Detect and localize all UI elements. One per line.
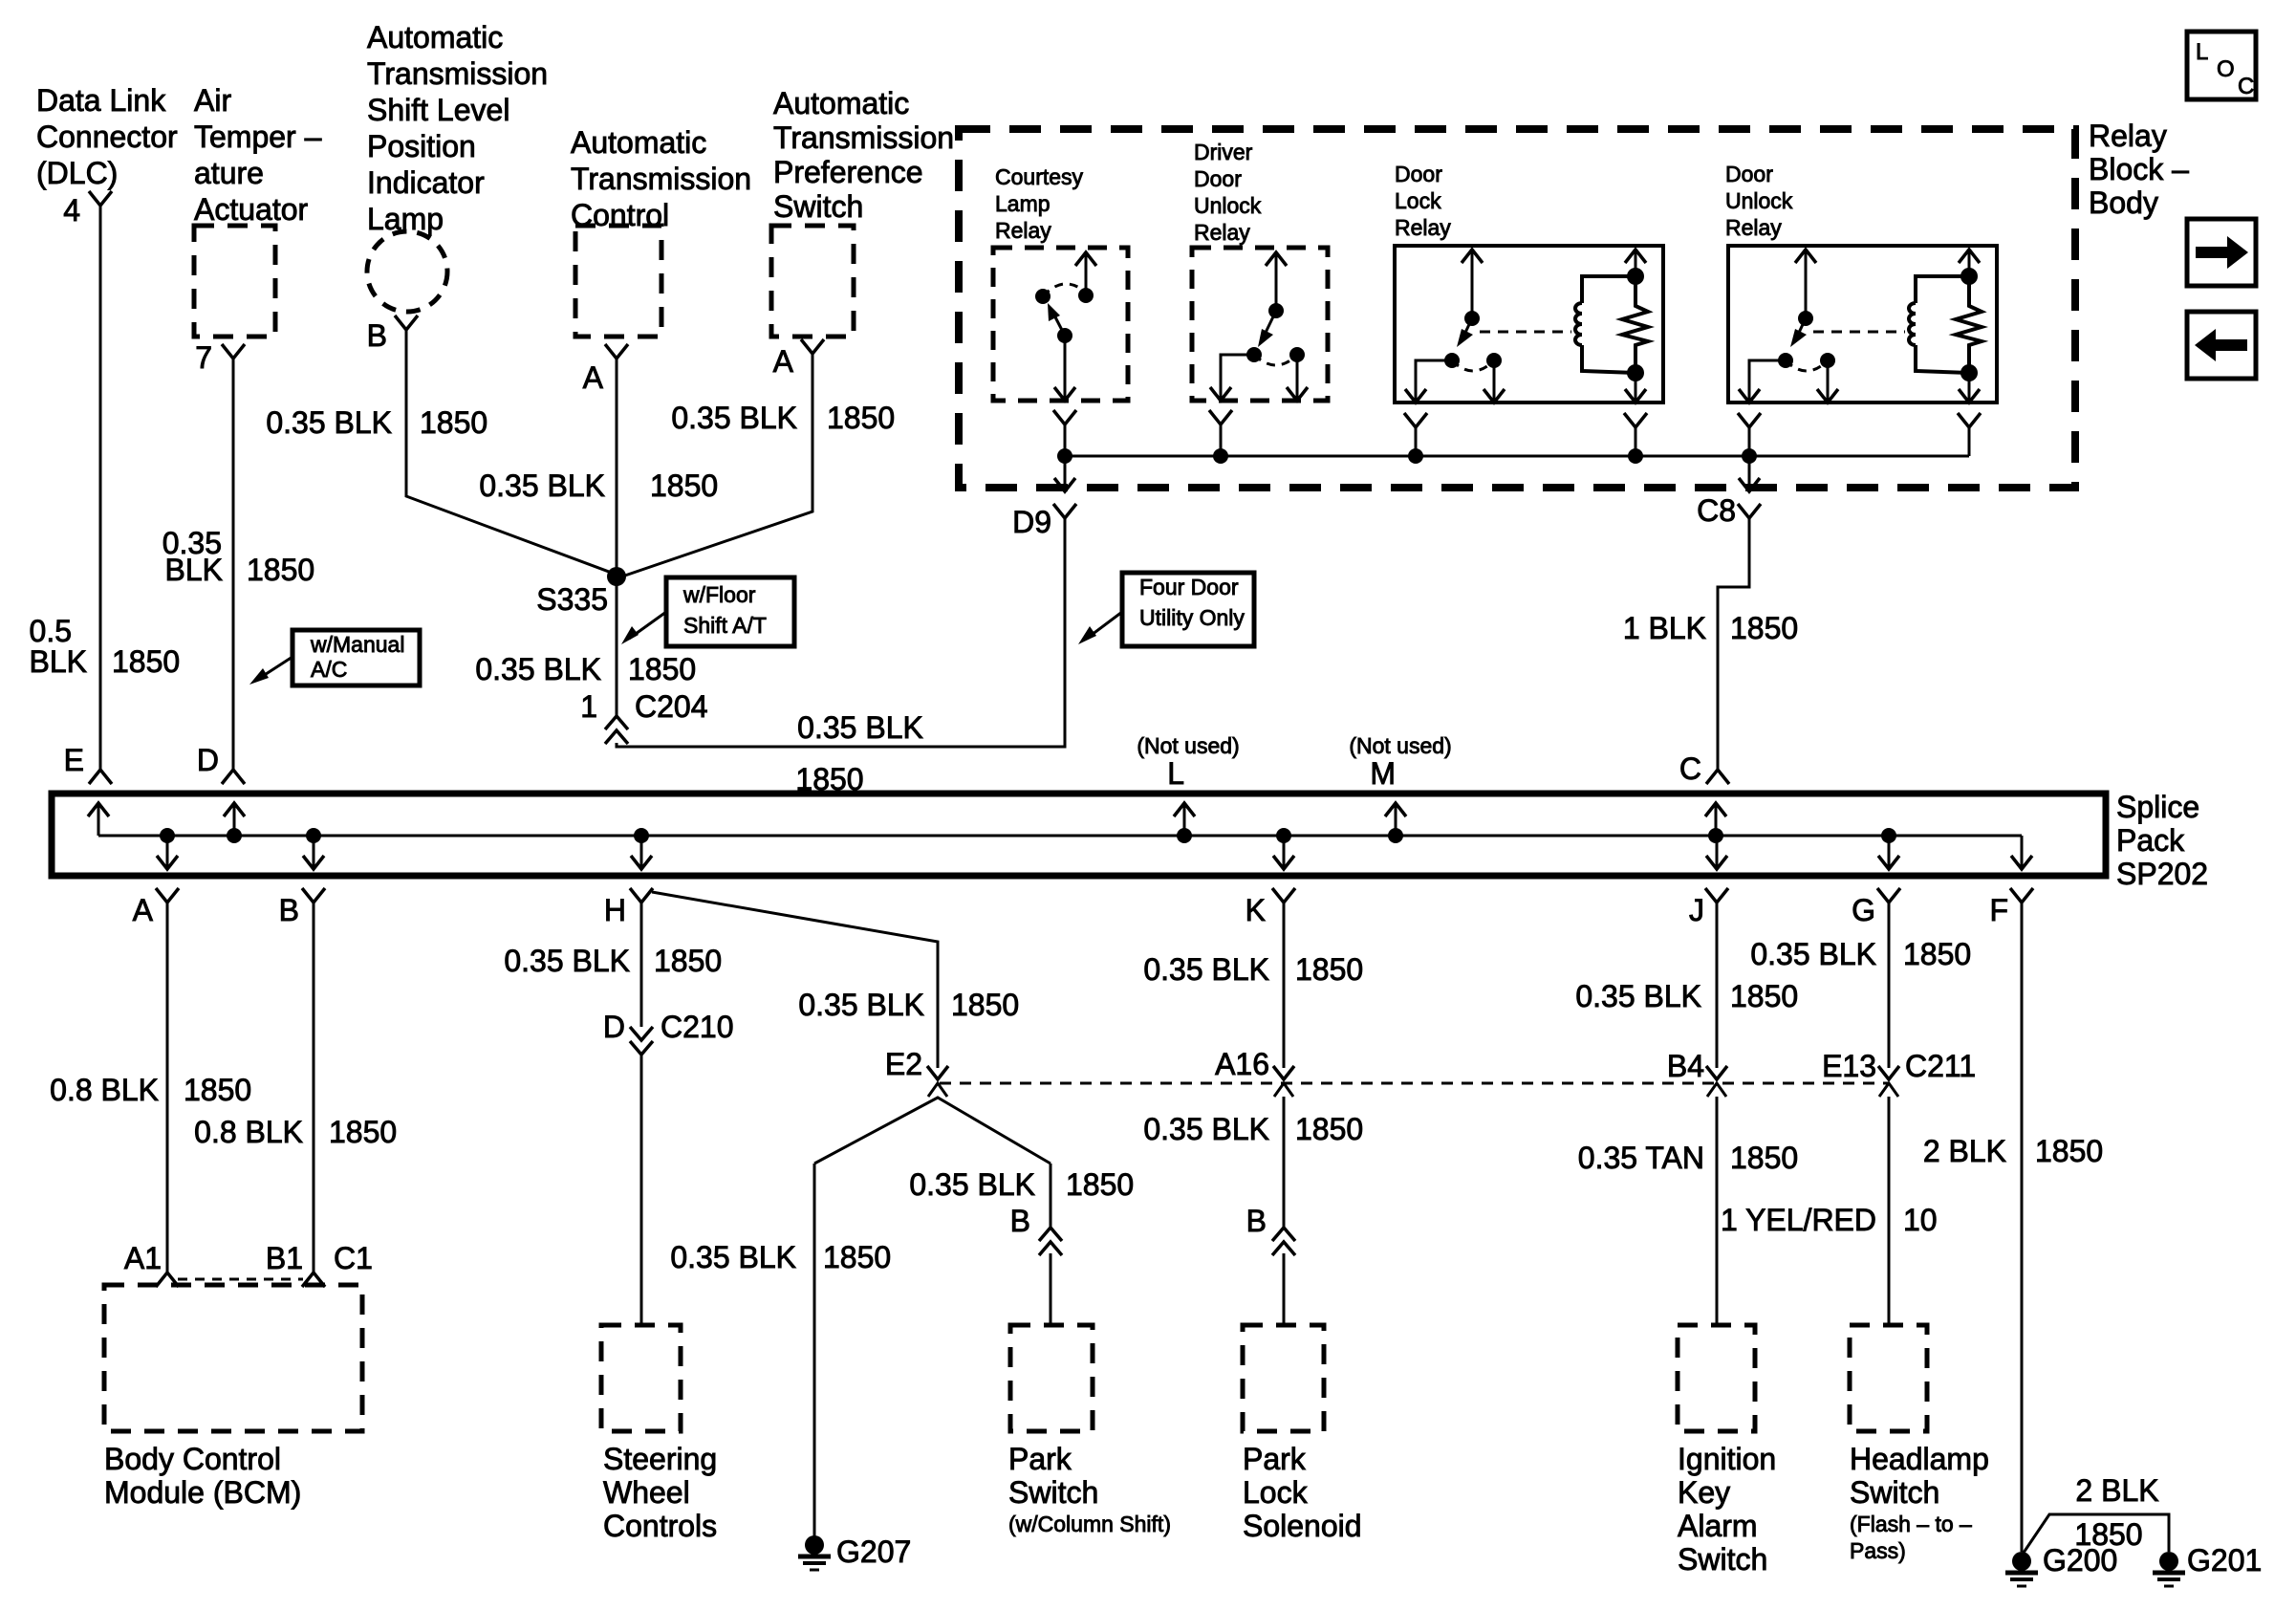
- w/Manual A/C callout box: [292, 630, 420, 685]
- wire into park lock solenoid: [1283, 1253, 1286, 1325]
- wire to G207 (0.35 BLK 1850): [813, 1164, 816, 1541]
- connector B below splice pack: [302, 888, 325, 903]
- svg-text:Shift A/T: Shift A/T: [683, 613, 767, 638]
- door lock relay coil node (bottom): [1627, 364, 1644, 381]
- svg-text:G201: G201: [2187, 1543, 2262, 1577]
- driver door unlock relay pin (top, arrow up): [1275, 252, 1278, 311]
- svg-text:Transmission: Transmission: [571, 162, 751, 196]
- wire preference switch A to S335 (0.35 BLK 1850): [617, 352, 812, 578]
- bus junction G: [1881, 828, 1896, 843]
- wire E2 split to G207 and park switch: [814, 1098, 1051, 1164]
- connector pin A of preference switch: [801, 339, 824, 354]
- svg-text:(Flash – to –: (Flash – to –: [1850, 1512, 1972, 1536]
- svg-text:Position: Position: [367, 129, 476, 163]
- Four Door Utility Only callout box: [1122, 573, 1254, 646]
- svg-text:Driver: Driver: [1194, 140, 1253, 164]
- svg-text:Temper –: Temper –: [194, 120, 322, 154]
- svg-text:Switch: Switch: [1850, 1475, 1939, 1510]
- svg-text:2 BLK: 2 BLK: [2075, 1473, 2158, 1508]
- Automatic Transmission Preference Switch box: [771, 226, 854, 337]
- svg-text:C: C: [2238, 74, 2254, 99]
- svg-text:BLK: BLK: [165, 553, 223, 587]
- door unlock relay common contact: [1778, 353, 1793, 368]
- callout arrow to C204 wire: [629, 612, 666, 639]
- svg-text:E2: E2: [885, 1047, 922, 1081]
- svg-text:Relay: Relay: [2089, 119, 2167, 153]
- wire door unlock relay coil to ground bus: [1968, 427, 1971, 456]
- door unlock relay coil wire down: [1968, 373, 1971, 401]
- bus junction B: [306, 828, 321, 843]
- door lock relay coil wire down: [1635, 373, 1637, 401]
- door unlock relay coil node (top): [1960, 268, 1978, 285]
- splice entry arrow L: [1183, 805, 1186, 836]
- svg-text:Door: Door: [1395, 162, 1442, 186]
- svg-text:7: 7: [195, 340, 212, 375]
- courtesy relay contact (NO): [1078, 288, 1094, 303]
- wire DLC pin4 to splice E (0.5 BLK 1850): [99, 204, 102, 770]
- svg-text:Steering: Steering: [603, 1442, 717, 1476]
- svg-text:0.35 BLK: 0.35 BLK: [798, 988, 924, 1022]
- door unlock relay switch pin (top, arrow up): [1805, 250, 1808, 318]
- driver door unlock relay common wire down: [1221, 355, 1254, 399]
- courtesy relay common wire down: [1064, 336, 1067, 399]
- door lock relay dashed actuation link: [1480, 331, 1571, 334]
- svg-text:0.5: 0.5: [30, 614, 72, 648]
- connector E2 (options line): [927, 1066, 948, 1079]
- svg-text:w/Manual: w/Manual: [310, 632, 404, 657]
- svg-text:B: B: [1246, 1204, 1267, 1238]
- svg-text:Transmission: Transmission: [773, 120, 954, 155]
- svg-text:Switch: Switch: [1008, 1475, 1098, 1510]
- splice entry arrow C: [1715, 805, 1718, 836]
- svg-text:0.8 BLK: 0.8 BLK: [194, 1115, 303, 1149]
- door unlock relay coil: [1916, 276, 1969, 303]
- svg-text:C8: C8: [1697, 493, 1736, 528]
- svg-text:Switch: Switch: [773, 189, 863, 224]
- svg-text:Splice: Splice: [2116, 790, 2199, 824]
- svg-text:Data Link: Data Link: [36, 83, 166, 118]
- driver door unlock relay contact (top): [1268, 303, 1284, 318]
- door lock relay common wire down: [1416, 360, 1452, 401]
- wire C8 to splice C (1 BLK 1850): [1718, 516, 1749, 770]
- door unlock relay dashed actuation link: [1813, 331, 1905, 334]
- door lock relay dashed throw arc: [1452, 360, 1494, 371]
- driver door unlock relay common contact: [1246, 347, 1262, 362]
- svg-text:C1: C1: [334, 1241, 373, 1275]
- courtesy relay switch arm: [1051, 310, 1065, 336]
- svg-text:Block –: Block –: [2089, 152, 2189, 186]
- svg-text:B1: B1: [266, 1241, 303, 1275]
- svg-text:Body: Body: [2089, 185, 2158, 220]
- connector below door lock relay (switch): [1404, 413, 1427, 427]
- connector G below splice pack: [1877, 888, 1900, 903]
- svg-text:A: A: [773, 344, 794, 379]
- Steering Wheel Controls box: [601, 1325, 681, 1431]
- svg-text:Park: Park: [1008, 1442, 1072, 1476]
- wire splice F to G200 (2 BLK 1850): [2021, 901, 2024, 1552]
- wire splice J down to B4 (0.35 BLK 1850): [1716, 901, 1719, 1068]
- svg-text:Indicator: Indicator: [367, 165, 485, 200]
- bus junction M: [1388, 828, 1403, 843]
- svg-text:1850: 1850: [247, 553, 314, 587]
- ground G201: [2159, 1552, 2178, 1571]
- connector B of park lock solenoid: [1272, 1228, 1295, 1241]
- connector K below splice pack: [1272, 888, 1295, 903]
- wire door unlock relay switch to ground bus: [1748, 427, 1751, 456]
- svg-text:0.35 BLK: 0.35 BLK: [1750, 937, 1876, 971]
- bus junction at door unlock relay switch / C8 drop: [1742, 448, 1757, 464]
- svg-text:1850: 1850: [1730, 1141, 1798, 1175]
- Air Temperature Actuator box: [194, 226, 275, 337]
- wire splice K down to A16 (0.35 BLK 1850): [1283, 901, 1286, 1068]
- wire S335 down to C204 (0.35 BLK 1850): [616, 577, 618, 716]
- splice entry arrow D: [233, 805, 236, 836]
- connector F below splice pack: [2010, 888, 2033, 903]
- svg-text:A: A: [583, 360, 604, 395]
- svg-text:1850: 1850: [823, 1240, 891, 1274]
- svg-text:Module (BCM): Module (BCM): [104, 1475, 301, 1510]
- left arrow legend box: [2187, 312, 2256, 379]
- options dashed line: [940, 1082, 1888, 1085]
- svg-text:E13: E13: [1822, 1049, 1876, 1083]
- wire door lock relay switch to ground bus: [1415, 427, 1418, 456]
- bus junction H: [634, 828, 649, 843]
- right arrow legend box: [2187, 219, 2256, 286]
- svg-text:1850: 1850: [1730, 979, 1798, 1013]
- svg-text:0.8 BLK: 0.8 BLK: [50, 1073, 159, 1107]
- Park Lock Solenoid box: [1243, 1325, 1324, 1431]
- splice S335: [607, 567, 626, 586]
- svg-text:0.35 BLK: 0.35 BLK: [1143, 1112, 1269, 1146]
- wire D9 stub: [1064, 516, 1067, 532]
- svg-text:0.35 BLK: 0.35 BLK: [1575, 979, 1701, 1013]
- Park Switch box: [1010, 1325, 1093, 1431]
- door unlock relay NC wire down: [1827, 360, 1830, 401]
- svg-text:BLK: BLK: [30, 644, 87, 679]
- bus corner to door unlock relay coil: [1968, 434, 1971, 456]
- wire ATC A to S335 (0.35 BLK 1850): [616, 357, 618, 577]
- bus junction L: [1177, 828, 1192, 843]
- wire A16 to park lock solenoid B (0.35 BLK 1850): [1283, 1097, 1286, 1228]
- svg-text:D9: D9: [1012, 505, 1051, 539]
- svg-text:Air: Air: [194, 83, 231, 118]
- door unlock relay coil node (bottom): [1960, 364, 1978, 381]
- svg-text:0.35 BLK: 0.35 BLK: [909, 1167, 1035, 1202]
- splice exit arrow H: [640, 836, 643, 867]
- connector E13/C211 (options line): [1878, 1066, 1899, 1079]
- svg-text:Automatic: Automatic: [367, 20, 503, 54]
- connector pin B of lamp: [395, 315, 418, 330]
- Splice Pack SP202 box: [52, 794, 2106, 876]
- connector C1 into BCM: [302, 1273, 325, 1287]
- callout arrow to actuator wire: [260, 657, 292, 678]
- svg-text:L: L: [1167, 756, 1184, 791]
- svg-text:1850: 1850: [420, 405, 487, 440]
- svg-text:Headlamp: Headlamp: [1850, 1442, 1989, 1476]
- wire splice G down to E13/C211 (0.35 BLK 1850): [1888, 901, 1891, 1068]
- door unlock relay contact (NC): [1820, 353, 1835, 368]
- svg-text:1850: 1850: [1295, 1112, 1363, 1146]
- connector below driver door unlock relay: [1209, 410, 1232, 424]
- Door Lock Relay box: [1395, 246, 1663, 402]
- courtesy relay contact (pivot): [1035, 289, 1051, 304]
- bus junction at door lock relay coil: [1628, 448, 1643, 464]
- Relay Block - Body (dashed border): [959, 129, 2075, 488]
- svg-text:B4: B4: [1667, 1049, 1704, 1083]
- svg-text:M: M: [1370, 756, 1396, 791]
- svg-text:A16: A16: [1215, 1047, 1269, 1081]
- svg-text:Unlock: Unlock: [1725, 188, 1793, 213]
- Door Unlock Relay box: [1728, 246, 1997, 402]
- bus junction at door lock relay switch: [1408, 448, 1423, 464]
- svg-text:L: L: [2196, 39, 2208, 65]
- door lock relay NC wire down: [1493, 360, 1496, 401]
- indicator lamp (dashed circle): [367, 231, 447, 312]
- Driver Door Unlock Relay box: [1192, 248, 1328, 401]
- svg-text:B: B: [279, 893, 299, 927]
- svg-text:1850: 1850: [650, 468, 718, 503]
- wire splice H diagonal to E2 (0.35 BLK 1850): [652, 892, 938, 1068]
- bus junction D: [227, 828, 242, 843]
- svg-text:Relay: Relay: [1194, 220, 1250, 245]
- svg-text:SP202: SP202: [2116, 857, 2208, 891]
- splice pack internal bus: [98, 835, 2022, 838]
- connector C8: [1738, 504, 1761, 518]
- Headlamp Switch box: [1850, 1325, 1927, 1431]
- svg-text:(Not used): (Not used): [1137, 733, 1239, 758]
- Ignition Key Alarm Switch box: [1678, 1325, 1755, 1431]
- wire bus to C8: [1748, 456, 1751, 490]
- svg-text:O: O: [2217, 56, 2235, 82]
- svg-text:Door: Door: [1725, 162, 1773, 186]
- svg-text:D: D: [603, 1010, 625, 1044]
- svg-text:Controls: Controls: [603, 1509, 717, 1543]
- svg-text:A: A: [133, 893, 154, 927]
- svg-text:w/Floor: w/Floor: [682, 582, 756, 607]
- wire splice A to BCM A1 (0.8 BLK 1850): [166, 901, 169, 1273]
- svg-text:1850: 1850: [1295, 952, 1363, 987]
- bus junction C/J: [1708, 828, 1723, 843]
- door lock relay coil pin (top, arrow up): [1635, 250, 1637, 276]
- wire B4 to ignition key alarm switch (0.35 TAN 1850): [1716, 1097, 1719, 1325]
- svg-text:1 YEL/RED: 1 YEL/RED: [1721, 1203, 1876, 1237]
- door lock relay contact (top): [1464, 311, 1480, 326]
- svg-text:(DLC): (DLC): [36, 156, 118, 190]
- door lock relay coil: [1582, 276, 1635, 303]
- svg-text:0.35 BLK: 0.35 BLK: [479, 468, 605, 503]
- svg-text:1: 1: [580, 689, 597, 724]
- door unlock relay resistor: [1956, 276, 1982, 373]
- splice exit arrow K: [1283, 836, 1286, 867]
- svg-text:Pass): Pass): [1850, 1538, 1906, 1563]
- svg-text:E: E: [64, 743, 84, 777]
- door lock relay coil node (top): [1627, 268, 1644, 285]
- wire G200 to G201 (2 BLK 1850): [2024, 1514, 2169, 1553]
- svg-text:C210: C210: [661, 1010, 734, 1044]
- svg-text:1850: 1850: [184, 1073, 251, 1107]
- door lock relay switch pin (top, arrow up): [1471, 250, 1474, 318]
- svg-text:1850: 1850: [1730, 611, 1798, 645]
- svg-text:Relay: Relay: [995, 218, 1051, 243]
- svg-text:C204: C204: [635, 689, 708, 724]
- svg-text:0.35 BLK: 0.35 BLK: [475, 652, 601, 686]
- svg-text:(Not used): (Not used): [1349, 733, 1451, 758]
- svg-text:Connector: Connector: [36, 120, 178, 154]
- svg-text:Solenoid: Solenoid: [1243, 1509, 1362, 1543]
- splice entry arrow E: [97, 805, 100, 836]
- connector D into splice pack: [222, 770, 245, 784]
- svg-text:C211: C211: [1905, 1049, 1976, 1083]
- courtesy relay pin (top, arrow up): [1085, 252, 1088, 295]
- svg-text:Unlock: Unlock: [1194, 193, 1262, 218]
- svg-text:C: C: [1679, 751, 1701, 786]
- wire C204 to relay block D9 (0.35 BLK 1850): [617, 532, 1065, 747]
- svg-text:(w/Column Shift): (w/Column Shift): [1008, 1512, 1171, 1536]
- svg-text:0.35 BLK: 0.35 BLK: [1143, 952, 1269, 987]
- svg-text:1850: 1850: [1903, 937, 1971, 971]
- svg-text:Four Door: Four Door: [1139, 575, 1239, 599]
- splice exit arrow B: [313, 836, 315, 867]
- Body Control Module (BCM) box: [104, 1285, 362, 1431]
- svg-text:K: K: [1245, 893, 1266, 927]
- splice entry arrow M: [1395, 805, 1397, 836]
- svg-text:Park: Park: [1243, 1442, 1307, 1476]
- Courtesy Lamp Relay box: [993, 248, 1128, 401]
- splice exit arrow F: [2021, 836, 2024, 867]
- wire actuator pin7 to splice D (0.35 BLK 1850): [232, 357, 235, 770]
- connector pin A of ATC: [605, 344, 628, 359]
- door unlock relay contact (top): [1798, 311, 1813, 326]
- svg-text:Pack: Pack: [2116, 823, 2185, 858]
- svg-text:J: J: [1689, 893, 1704, 927]
- door lock relay resistor: [1622, 276, 1648, 373]
- relay block internal ground bus: [1065, 455, 1969, 458]
- svg-text:Relay: Relay: [1395, 215, 1451, 240]
- svg-text:Transmission: Transmission: [367, 56, 548, 91]
- courtesy relay dashed throw arc: [1043, 284, 1086, 296]
- svg-text:B: B: [367, 318, 387, 353]
- svg-text:Ignition: Ignition: [1678, 1442, 1776, 1476]
- svg-text:Wheel: Wheel: [603, 1475, 690, 1510]
- svg-text:Body Control: Body Control: [104, 1442, 281, 1476]
- svg-text:1850: 1850: [2074, 1517, 2142, 1552]
- connector pin 7 of actuator: [222, 344, 245, 359]
- driver door unlock relay contact (NC): [1289, 347, 1305, 362]
- bus junction at driver door unlock relay: [1213, 448, 1228, 464]
- Automatic Transmission Control box: [575, 226, 661, 337]
- connector A16 (options line): [1273, 1066, 1294, 1079]
- wire driver door unlock relay to ground bus: [1220, 423, 1223, 456]
- connector C210 (inline): [630, 1027, 653, 1040]
- connector C204 (inline): [605, 716, 628, 729]
- svg-text:1850: 1850: [628, 652, 696, 686]
- svg-text:B: B: [1010, 1204, 1030, 1238]
- connector E into splice pack: [89, 770, 112, 784]
- connector below courtesy relay: [1053, 410, 1076, 424]
- connector H below splice pack: [630, 888, 653, 903]
- bus junction A: [160, 828, 175, 843]
- svg-text:Preference: Preference: [773, 155, 923, 189]
- svg-text:A/C: A/C: [311, 657, 347, 682]
- svg-text:H: H: [604, 893, 626, 927]
- svg-text:0.35 BLK: 0.35 BLK: [671, 401, 797, 435]
- wire lamp B to S335 (0.35 BLK 1850): [406, 328, 617, 575]
- svg-text:4: 4: [63, 193, 80, 228]
- connector A below splice pack: [156, 888, 179, 903]
- svg-text:2 BLK: 2 BLK: [1923, 1134, 2006, 1168]
- svg-text:0.35 BLK: 0.35 BLK: [670, 1240, 796, 1274]
- svg-text:Door: Door: [1194, 166, 1242, 191]
- connector C into splice pack: [1706, 770, 1729, 784]
- svg-text:Lamp: Lamp: [995, 191, 1051, 216]
- svg-text:F: F: [1989, 893, 2008, 927]
- svg-text:Utility Only: Utility Only: [1139, 605, 1245, 630]
- wire splice B to BCM C1 (0.8 BLK 1850): [313, 901, 315, 1273]
- door lock relay contact (NC): [1486, 353, 1502, 368]
- svg-text:D: D: [197, 743, 219, 777]
- svg-text:S335: S335: [536, 582, 608, 617]
- driver door unlock relay dashed throw arc: [1254, 355, 1297, 365]
- svg-text:Actuator: Actuator: [194, 192, 309, 227]
- connector A1 into BCM: [156, 1273, 179, 1287]
- connector B4 (options line): [1706, 1066, 1727, 1079]
- svg-text:1 BLK: 1 BLK: [1623, 611, 1706, 645]
- svg-text:Alarm: Alarm: [1678, 1509, 1758, 1543]
- svg-text:Shift Level: Shift Level: [367, 93, 509, 127]
- door unlock relay coil pin (top, arrow up): [1968, 250, 1971, 276]
- wire bus to D9: [1064, 456, 1067, 490]
- wire to park switch B (0.35 BLK 1850): [1050, 1164, 1052, 1228]
- svg-text:0.35 BLK: 0.35 BLK: [266, 405, 392, 440]
- bus junction K: [1276, 828, 1291, 843]
- connector pin 4 of DLC: [89, 191, 112, 206]
- svg-text:0.35 TAN: 0.35 TAN: [1578, 1141, 1704, 1175]
- BCM connector face (dashed): [178, 1278, 303, 1281]
- svg-text:ature: ature: [194, 156, 264, 190]
- callout arrow to D9 wire: [1088, 612, 1122, 638]
- connector D9: [1053, 504, 1076, 518]
- splice exit arrow G: [1888, 836, 1891, 867]
- driver door unlock relay NC wire down: [1296, 355, 1299, 399]
- wire into park switch: [1050, 1253, 1052, 1325]
- svg-text:1850: 1850: [951, 988, 1019, 1022]
- svg-text:Relay: Relay: [1725, 215, 1782, 240]
- splice exit arrow J: [1716, 836, 1719, 867]
- driver door unlock relay switch arm: [1264, 311, 1276, 337]
- splice exit arrow A: [166, 836, 169, 867]
- svg-text:A1: A1: [124, 1241, 162, 1275]
- connector below door unlock relay (switch): [1738, 413, 1761, 427]
- courtesy relay common contact: [1057, 328, 1072, 343]
- svg-text:G: G: [1852, 893, 1875, 927]
- svg-text:G207: G207: [836, 1534, 911, 1569]
- svg-text:Automatic: Automatic: [571, 125, 706, 160]
- svg-text:Courtesy: Courtesy: [995, 164, 1084, 189]
- door lock relay switch arm: [1463, 318, 1472, 337]
- svg-text:0.35 BLK: 0.35 BLK: [504, 944, 630, 978]
- svg-text:1850: 1850: [654, 944, 722, 978]
- bus junction at courtesy relay: [1057, 448, 1072, 464]
- door unlock relay switch arm: [1797, 318, 1806, 337]
- wire door lock relay coil to ground bus: [1635, 427, 1637, 456]
- svg-text:1850: 1850: [2035, 1134, 2103, 1168]
- svg-text:Automatic: Automatic: [773, 86, 909, 120]
- svg-text:Lock: Lock: [1243, 1475, 1309, 1510]
- wire C210 to steering wheel controls: [640, 1053, 643, 1325]
- w/Floor Shift A/T callout box: [666, 577, 794, 646]
- svg-text:10: 10: [1903, 1203, 1938, 1237]
- svg-text:1850: 1850: [329, 1115, 397, 1149]
